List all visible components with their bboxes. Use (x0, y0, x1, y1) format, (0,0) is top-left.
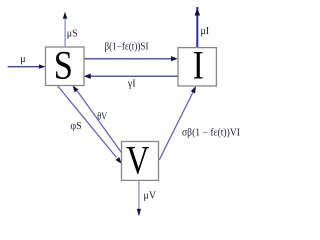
svg-text:γI: γI (127, 79, 136, 90)
wire thetaV from V up to S (73, 85, 122, 152)
svg-text:μV: μV (144, 190, 157, 201)
svg-text:μ: μ (20, 54, 25, 65)
svg-text:σβ(1 − fε(t))VI: σβ(1 − fε(t))VI (182, 127, 240, 138)
wire mu into S (8, 64, 46, 68)
wire muS up from S (63, 12, 67, 47)
letter S (54, 43, 73, 88)
svg-text:S: S (54, 43, 73, 88)
wire phiS from S down to V (57, 86, 122, 164)
svg-text:μS: μS (67, 29, 78, 40)
wire S to I (infection) (84, 56, 178, 61)
compartment box S (46, 47, 85, 86)
svg-text:I: I (193, 43, 204, 88)
wire muV down from V (137, 180, 141, 216)
wire I to S (recovery gammaI) (84, 74, 178, 79)
svg-text:μI: μI (201, 26, 210, 37)
compartment box V (122, 142, 159, 181)
compartment box I (178, 48, 216, 86)
svg-text:β(1−fε(t))SI: β(1−fε(t))SI (105, 42, 149, 53)
wire V to I (sigma beta) (159, 86, 196, 160)
svg-text:V: V (126, 137, 150, 182)
letter I (193, 43, 204, 88)
letter V (126, 137, 150, 182)
svg-text:θV: θV (97, 111, 108, 122)
wire muI up from I (bold) (195, 7, 201, 48)
svg-text:φS: φS (70, 121, 81, 132)
